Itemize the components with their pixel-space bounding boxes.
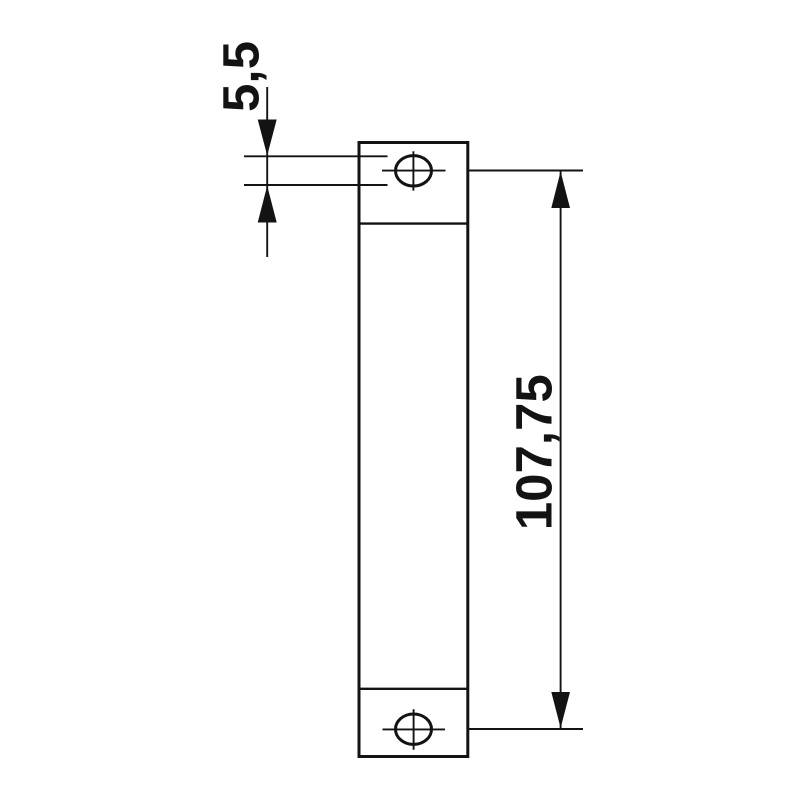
svg-text:5,5: 5,5 [213, 41, 270, 112]
svg-text:107,75: 107,75 [506, 374, 563, 530]
